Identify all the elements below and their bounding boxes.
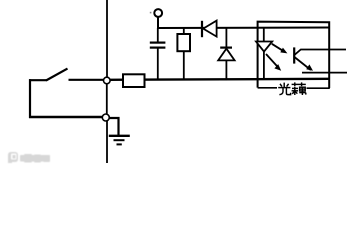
terminal ring [154, 9, 162, 17]
diode D1 (points left) [202, 21, 217, 38]
optocoupler label row line left [258, 87, 277, 89]
wire: node B to ground stem [109, 118, 119, 135]
wire: top rail [158, 27, 329, 30]
glyph 光 [278, 83, 290, 95]
wire: below node B [106, 121, 108, 163]
wire: left vertical [29, 79, 31, 118]
resistor R1 [123, 74, 145, 87]
wire: node A to node B [106, 84, 108, 115]
wire: emitter lead out [302, 72, 347, 74]
wire: bottom return [29, 116, 103, 118]
diode D2 (vertical, points up) [218, 28, 234, 79]
node A (upper junction) [104, 77, 111, 84]
glyph 藕 [292, 82, 306, 95]
LED inside optocoupler [256, 28, 272, 79]
switch S1 blade [46, 69, 68, 81]
resistor R2 (vertical) [177, 28, 190, 80]
node B (lower junction) [102, 114, 109, 121]
optocoupler label row line right [307, 87, 330, 89]
speck near terminal [150, 12, 152, 14]
wire: rail left of switch [29, 79, 47, 81]
label text 光藕 (drawn glyphs) [278, 82, 306, 95]
phototransistor Q1 base bar [293, 47, 295, 63]
wire: switch to node A [69, 79, 104, 81]
watermark bottom-left [7, 151, 67, 165]
light arrow B [266, 54, 281, 71]
wire: main rail (node A to optocoupler) [110, 79, 329, 80]
phototransistor Q1 collector [294, 50, 346, 56]
wire: top vertical feed [106, 0, 108, 78]
phototransistor Q1 emitter with arrow [294, 57, 313, 71]
capacitor C1 [150, 28, 166, 80]
light arrow A [272, 44, 288, 54]
wire: terminal stem [157, 17, 159, 28]
optocoupler U1 box (open bottom) [258, 22, 330, 88]
ground [109, 136, 130, 145]
